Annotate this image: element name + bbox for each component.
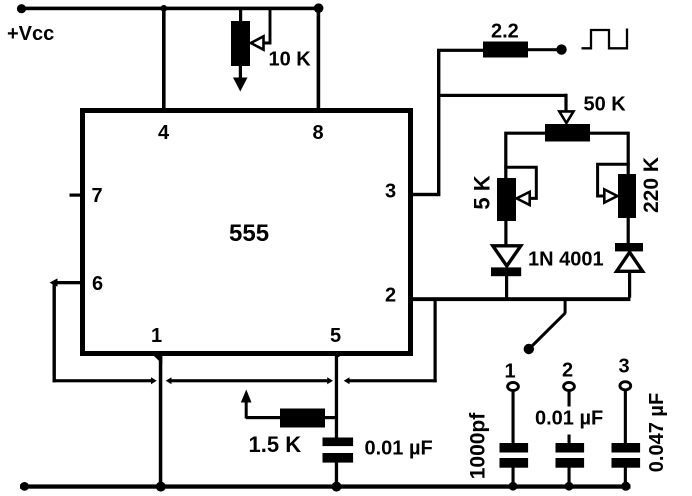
svg-text:4: 4 xyxy=(158,122,170,144)
wire: C2 to ground rail xyxy=(568,468,571,486)
wire: pin 3 branch to 50 K wiper xyxy=(437,94,567,97)
svg-text:0.047 µF: 0.047 µF xyxy=(646,393,668,472)
contact circle 3 xyxy=(620,382,631,390)
wire: 5 K bottom to diode D1 xyxy=(504,221,507,246)
svg-text:2.2: 2.2 xyxy=(491,21,519,43)
potentiometer 50 K body xyxy=(545,124,590,142)
wire: ground rail xyxy=(20,484,631,488)
tick: segment A right end xyxy=(151,377,157,384)
svg-text:1: 1 xyxy=(151,325,162,347)
wire: 1.5 K left lead xyxy=(246,416,280,419)
svg-text:2: 2 xyxy=(385,285,396,307)
wire: pin6-pin2 tie segment C (hops pin 5 lead) xyxy=(348,379,437,382)
node: ground left terminal dot xyxy=(20,482,29,491)
wire: pin 5 cap to ground rail xyxy=(335,463,338,486)
svg-text:3: 3 xyxy=(619,356,630,378)
wire: 50 K wiper drop xyxy=(564,94,567,113)
tick: pin 6 stub left end xyxy=(50,278,58,286)
tick: pin 1 lead top flare xyxy=(154,356,162,364)
svg-text:8: 8 xyxy=(313,122,324,144)
svg-text:+Vcc: +Vcc xyxy=(7,23,54,45)
wire: pin 5 down lead xyxy=(335,356,338,438)
svg-text:1: 1 xyxy=(505,361,516,383)
wire: pin 4 to +Vcc rail xyxy=(162,8,166,108)
contact circle 1 xyxy=(508,382,519,390)
potentiometer 10 K body xyxy=(231,21,250,66)
wire: +Vcc top supply rail xyxy=(20,7,320,11)
node: pin 1 / ground junction dot xyxy=(156,482,166,492)
svg-text:5: 5 xyxy=(330,325,341,347)
tick: segment B left end xyxy=(166,377,172,384)
arrow: 10 K bottom pointing down xyxy=(233,78,248,92)
contact circle 2 xyxy=(564,382,575,390)
node: +Vcc terminal dot xyxy=(17,4,26,13)
wire: riser from tie up to pin 2 stub xyxy=(434,299,437,382)
node: C3 / ground junction dot xyxy=(621,482,630,491)
wire: 50 K right terminal down to 220 K xyxy=(590,133,628,174)
svg-text:6: 6 xyxy=(92,273,103,295)
node: pin 5 cap / ground junction dot xyxy=(332,482,342,492)
wire: pin 3 stub xyxy=(413,193,438,196)
wire: contact 2 to capacitor C2 (upper segment) xyxy=(568,392,571,407)
svg-text:2: 2 xyxy=(562,360,573,382)
IC U1 555 body xyxy=(83,111,411,354)
wire: pin 2 stub / diode rail xyxy=(413,297,630,301)
50 K wiper arrow xyxy=(559,111,573,123)
svg-text:5 K: 5 K xyxy=(470,175,495,209)
wire: contact 3 to capacitor C3 xyxy=(624,391,627,443)
diode D1 cathode bar xyxy=(491,267,521,276)
node: top rail right end junction dot xyxy=(314,3,324,13)
node: C1 / ground junction dot xyxy=(509,482,518,491)
wire: pin 7 stub xyxy=(70,194,83,197)
wire: pin 1 to ground xyxy=(159,356,163,486)
wire: 220 K wiper loop to top terminal xyxy=(598,164,630,196)
node: output terminal dot xyxy=(556,44,566,54)
diode D2 cathode bar (top) xyxy=(615,243,643,251)
wire: contact 1 to capacitor C1 xyxy=(512,392,515,444)
diode D2 (cathode up) triangle xyxy=(617,252,643,271)
svg-text:3: 3 xyxy=(385,181,396,203)
5 K wiper arrow xyxy=(517,192,530,205)
node: top rail / pin-4 junction dot xyxy=(160,5,167,12)
switch stem from pin 2 rail xyxy=(564,300,567,313)
svg-text:220 K: 220 K xyxy=(640,157,663,213)
resistor 1.5 K body xyxy=(280,409,325,428)
wire: 220 K bottom to diode D2 xyxy=(627,218,630,244)
square wave symbol xyxy=(582,29,628,49)
capacitor C3 0.047uF plates xyxy=(612,443,641,468)
svg-text:1.5 K: 1.5 K xyxy=(249,432,302,457)
capacitor C2 0.01uF plates xyxy=(556,443,585,468)
svg-text:555: 555 xyxy=(229,220,269,247)
wire: 1.5 K left vertical xyxy=(245,398,248,419)
diode D1 (cathode down) triangle xyxy=(493,246,521,266)
wire: pin6-pin2 tie segment A xyxy=(53,379,152,382)
capacitor 0.01uF (pin 5) plates xyxy=(323,438,354,463)
wire: 1.5 K right lead to pin 5 xyxy=(325,416,336,419)
wire: pin6-pin2 tie segment B (hops pin 1 lead) xyxy=(170,379,327,382)
wire: pin 6 stub xyxy=(53,281,83,284)
wire: C1 to ground rail xyxy=(512,468,515,486)
tick: segment C left end xyxy=(344,377,350,384)
220 K wiper arrow xyxy=(604,189,617,202)
wire: 10 K wiper to rail xyxy=(263,9,271,43)
node: C2 / ground junction dot xyxy=(565,482,574,491)
wire: 2.2 to output dot xyxy=(528,48,558,51)
capacitor C1 1000pf plates xyxy=(500,443,529,468)
svg-text:1000pf: 1000pf xyxy=(467,412,490,480)
potentiometer 220 K body xyxy=(618,174,636,218)
resistor 2.2 body xyxy=(483,42,528,58)
wire: 50 K left terminal down to 5 K xyxy=(506,133,545,178)
wire: D1 to pin 2 rail xyxy=(505,276,508,298)
node: pin 5 lead top bump xyxy=(335,352,340,357)
wire: pin 6 down leg xyxy=(53,281,56,382)
svg-text:7: 7 xyxy=(92,185,103,207)
wire: 10 K bottom lead xyxy=(239,66,242,79)
svg-text:0.01 µF: 0.01 µF xyxy=(535,408,603,430)
10 K wiper arrow xyxy=(251,36,264,49)
wire: 10 K top terminal to rail xyxy=(239,9,242,22)
svg-text:10 K: 10 K xyxy=(269,49,312,71)
wire: pin 8 to +Vcc rail xyxy=(317,8,321,108)
wire: pin 3 to 2.2 resistor xyxy=(437,49,484,52)
wire: C3 to ground rail xyxy=(624,468,627,486)
tick: segment B right end xyxy=(327,377,333,384)
wire: D2 to pin 2 rail xyxy=(628,271,631,297)
node: switch pole dot xyxy=(524,344,534,354)
wire: pin 3 riser xyxy=(437,49,440,196)
svg-text:0.01 µF: 0.01 µF xyxy=(365,438,433,460)
switch arm (diagonal) xyxy=(531,313,566,348)
potentiometer 5 K body xyxy=(497,178,516,221)
wire: 5 K wiper loop to top terminal xyxy=(504,167,536,198)
wire: contact 2 to capacitor C2 (lower segment) xyxy=(568,435,571,444)
arrow: 1.5 K left lead pointing up xyxy=(241,390,252,403)
svg-text:50 K: 50 K xyxy=(584,94,627,116)
svg-text:1N 4001: 1N 4001 xyxy=(528,249,604,271)
